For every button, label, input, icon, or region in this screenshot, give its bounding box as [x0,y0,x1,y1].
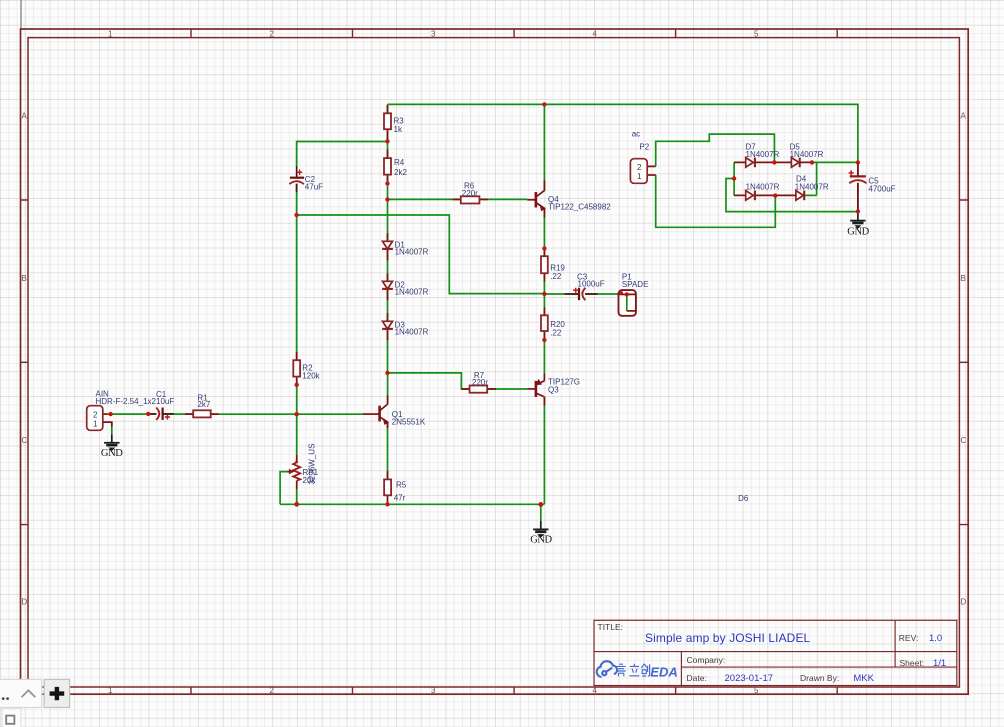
pin segments D1 [387,233,389,260]
junction node feedback tap [294,213,298,217]
junction node R3-R4 [385,139,389,143]
junction node C5 top [856,160,860,164]
junction node bridge plus [810,160,814,164]
junction node AIN pin2 [108,412,112,416]
svg-text:1000uF: 1000uF [578,280,605,289]
ground symbol at output bus [530,521,552,546]
pin segments D2 [387,273,389,300]
junction node output [542,292,546,296]
junction node C5 bottom [856,209,860,213]
wire AIN pin2 to C1 [107,413,156,415]
pin segments R7 [461,388,496,390]
svg-text:HDR-F-2.54_1x2: HDR-F-2.54_1x2 [96,397,157,406]
junction node bridge minus [732,176,736,180]
wire bridge minus node to C5 bottom and GND [726,179,858,212]
wire R2 bottom to Q1 base node [296,385,298,455]
svg-text:R4: R4 [394,158,405,167]
svg-text:1: 1 [108,686,113,695]
svg-text:2: 2 [93,411,98,420]
svg-text:B: B [22,274,27,283]
diode D1 1N4007R [382,240,429,256]
transistor Q4 TIP122 [527,181,611,218]
svg-text:REV:: REV: [899,633,919,643]
transistor Q3 TIP127G [527,374,580,406]
connector P2 (ac) [630,130,655,184]
svg-text:GND: GND [530,535,552,546]
svg-text:4: 4 [593,29,598,38]
wire AIN pin1 down leg [111,422,113,435]
resistor R1 2k7 [193,394,211,418]
wire Q1 collector to D3 node [387,373,389,404]
pin segments R5 [387,471,389,505]
svg-text:1.0: 1.0 [929,633,942,644]
svg-text:D: D [22,597,28,606]
ruler column ticks top [191,29,837,38]
diode D5 1N4007R [790,143,824,168]
svg-text:C: C [961,436,967,445]
junction node R4 bottom [385,181,389,185]
wire Q4 collector stub [543,104,545,191]
wire output node to C3 [544,293,578,295]
svg-text:MKK: MKK [853,673,874,684]
junction node D3 bottom [385,371,389,375]
svg-text:1N4007R: 1N4007R [746,150,780,159]
svg-text:2: 2 [270,29,275,38]
wire R19 junction to R20 to Q3 emitter [543,294,545,374]
pin segments R4 [387,150,389,184]
wire R1 to Q1 base node [211,413,297,415]
svg-text:B: B [961,274,966,283]
resistor R20 .22 [541,315,565,337]
resistor R19 .22 [541,256,565,281]
wire RP1 bottom to bus [296,489,298,505]
wire P2 pin1 to bridge bottom input [656,175,776,227]
wire mid GND stub [540,504,542,521]
capacitor C5 4700uF [849,162,896,211]
svg-text:1: 1 [637,172,642,181]
svg-text:1N4007R: 1N4007R [790,150,824,159]
svg-text:P2: P2 [639,142,649,151]
junction node bus GND [538,502,543,507]
svg-text:GND: GND [101,448,123,459]
svg-text:EDA: EDA [650,665,677,680]
svg-text:1N4007R: 1N4007R [746,182,780,191]
canvas edge marker line [20,0,22,29]
ruler column ticks bottom [191,687,837,694]
wire bridge left node vertical [733,162,735,195]
junction node RP1 bus [294,502,299,507]
wire D4 cathode riser [804,162,817,195]
transistor Q1 2N5551K [363,396,426,429]
svg-text:Sheet:: Sheet: [900,658,925,668]
svg-text:2k7: 2k7 [197,400,210,409]
diode D3 1N4007R [382,320,429,336]
resistor R2 120k [293,360,320,381]
svg-text:1: 1 [108,29,113,38]
junction node bridge ac top [772,160,776,164]
potentiometer RP1 3296W_US 20k [288,444,319,489]
resistor R4 2k2 [384,158,407,177]
EasyEDA logo CJK glyph li [629,664,639,676]
junction node top rail Q4 [542,102,546,106]
pin segments R20 [543,307,545,340]
svg-text:4: 4 [593,686,598,695]
wire Q3 collector down to bus [543,397,545,504]
wire Q1 base [297,413,364,415]
svg-text:4700uF: 4700uF [868,185,895,194]
pin segments bridge diodes [734,161,812,163]
svg-text:ac: ac [632,130,640,139]
wire C1 to R1 [162,413,193,415]
pin segments R1 [185,413,219,415]
svg-text:R5: R5 [396,481,407,490]
EasyEDA logo CJK glyph jia [617,664,626,676]
svg-text:1k: 1k [394,125,403,134]
UI zoom plus button [44,679,69,707]
diode D2 1N4007R [382,280,429,296]
junction node Q4 emitter R19 [542,246,546,250]
wire ground bus [280,503,544,505]
junction node Q1 base [295,412,299,416]
svg-text:3296W_US: 3296W_US [308,444,317,485]
ground symbol at C5 [847,212,869,238]
junction node bridge ac bottom [773,193,777,197]
resistor R5 47r [384,479,407,502]
svg-text:D6: D6 [738,494,749,503]
svg-text:220r: 220r [472,378,488,387]
title block divider lines [594,620,957,685]
svg-text:2: 2 [637,163,642,172]
svg-text:GND: GND [847,227,869,238]
svg-text:1: 1 [93,420,98,429]
UI bottom toolbar panel [0,679,42,707]
svg-text:3: 3 [431,686,436,695]
wire +V top rail [388,104,858,162]
svg-text:A: A [22,112,28,121]
svg-text:A: A [961,112,967,121]
svg-text:TIP122_C458982: TIP122_C458982 [548,203,611,212]
pin segments R2 [296,352,298,385]
wire R3-R4-D1-D2-D3 column [387,104,389,373]
svg-text:1N4007R: 1N4007R [395,288,429,297]
ruler row ticks left [21,200,29,525]
svg-text:47r: 47r [394,493,406,502]
svg-text:Company:: Company: [687,655,726,665]
svg-text:1/1: 1/1 [933,658,946,669]
connector AIN HDR-F-2.54_1x2 [87,390,157,431]
pin segments R6 [453,198,488,200]
svg-text:TITLE:: TITLE: [598,622,624,632]
pin segments D3 [387,313,389,340]
resistor R3 1k [384,113,404,134]
svg-text:10uF: 10uF [156,397,174,406]
diode D4 1N4007R [795,175,829,201]
wire D3 node to R7 to Q3 base [388,373,528,389]
pin segments R3 [387,105,389,141]
svg-text:Simple amp by JOSHI LIADEL: Simple amp by JOSHI LIADEL [645,631,811,645]
svg-text:.22: .22 [550,329,562,338]
wire C2 top to R3/R4 node [297,142,388,167]
wire bridge plus node to C5 top [812,161,858,163]
wire P2 pin2 to bridge top input [656,134,775,166]
wire feedback from C2 column to output node [297,215,545,294]
junction node P1 pin [625,292,629,296]
svg-text:SPADE: SPADE [622,280,649,289]
svg-text:Q3: Q3 [548,385,559,394]
svg-text:2023-01-17: 2023-01-17 [725,673,774,684]
junction node R5 bus [385,502,389,506]
ruler row ticks right [959,200,968,525]
wire Q1 emitter to R5 [387,422,389,480]
diode D6 1N4007R (bottom-left of bridge) [746,182,780,200]
junction node R2 bottom [295,383,299,387]
capacitor C1 10uF [148,390,174,420]
resistor R6 220r [461,182,480,204]
svg-text:2N5551K: 2N5551K [392,418,426,427]
wire R6 branch node to Q4 base [388,198,528,200]
wire RP1 wiper loop [280,472,288,505]
svg-text:1N4007R: 1N4007R [795,182,829,191]
svg-text:3: 3 [431,29,436,38]
title block outline [594,620,957,685]
svg-text:D: D [961,597,967,606]
connector P1 SPADE [619,273,649,316]
capacitor C2 47uF [289,166,323,192]
diode D7 1N4007R [746,143,780,168]
svg-text:1N4007R: 1N4007R [395,248,429,257]
junction node C1 left [146,412,150,416]
wire C2 bottom to R2 top [296,184,298,360]
junction node R6 branch [385,197,389,201]
svg-text:.22: .22 [550,272,562,281]
ground symbol at AIN [101,435,123,459]
svg-text:1N4007R: 1N4007R [395,328,429,337]
svg-text:2k2: 2k2 [394,168,407,177]
svg-text:Date:: Date: [687,673,707,683]
UI small panel with square icon [2,709,21,727]
svg-text:2: 2 [270,686,275,695]
wire C3 to P1 [585,293,627,295]
svg-text:220r: 220r [462,189,478,198]
wire Q4 emitter to R19 [543,208,545,295]
svg-text:5: 5 [754,686,759,695]
svg-text:5: 5 [754,29,759,38]
svg-text:120k: 120k [302,372,320,381]
resistor R7 220r [470,371,489,393]
svg-text:C: C [22,436,28,445]
svg-text:Drawn By:: Drawn By: [800,673,839,683]
EasyEDA logo CJK glyph chuang [642,664,650,676]
pin segments R19 [543,248,545,281]
svg-text:47uF: 47uF [305,183,323,192]
junction node R20 bottom [542,338,546,342]
EasyEDA logo cloud icon [597,661,617,677]
capacitor C3 1000uF [565,273,605,301]
